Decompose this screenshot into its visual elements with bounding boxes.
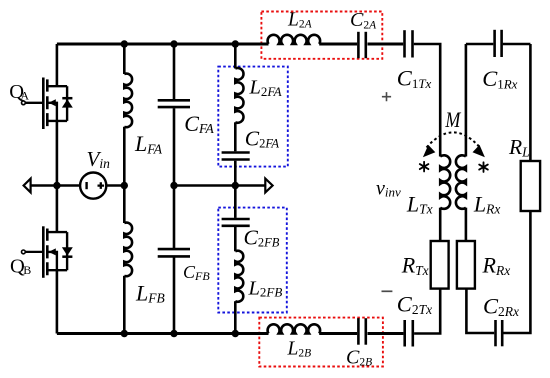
svg-text:M: M: [445, 107, 462, 132]
svg-text:A: A: [20, 89, 29, 103]
svg-text:B: B: [23, 263, 31, 277]
